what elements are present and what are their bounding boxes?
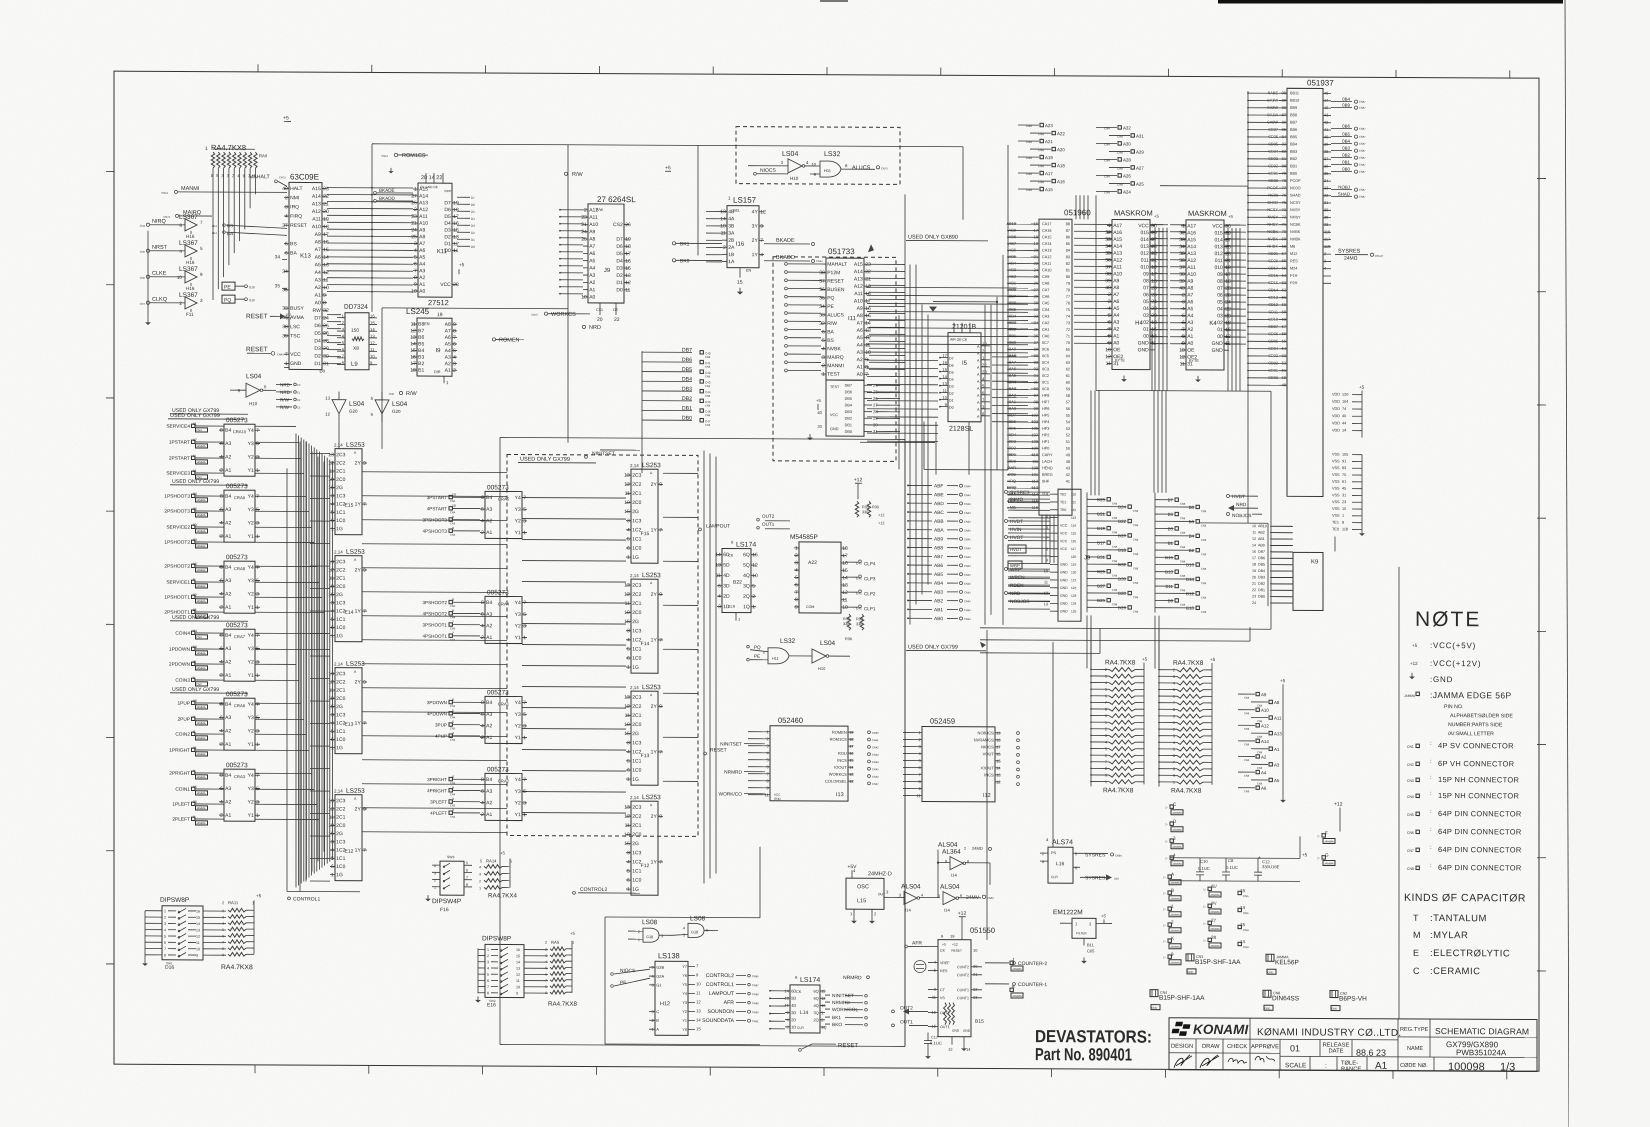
svg-text:A2: A2 [419, 275, 425, 281]
svg-text:L14: L14 [800, 1010, 809, 1016]
svg-text:CN8: CN8 [705, 384, 711, 388]
svg-text:A0: A0 [589, 294, 595, 300]
svg-text:RANCE: RANCE [1341, 1067, 1361, 1073]
svg-text:40: 40 [1105, 285, 1111, 291]
svg-text:NIRQ: NIRQ [152, 219, 166, 225]
svg-text:CN88: CN88 [752, 992, 759, 996]
svg-text:LS04: LS04 [349, 401, 365, 408]
svg-text:1: 1 [1182, 223, 1185, 229]
svg-text:IOOUT: IOOUT [981, 765, 994, 770]
svg-text:65: 65 [1066, 348, 1070, 352]
svg-text:A1: A1 [589, 287, 595, 293]
svg-text:10: 10 [1252, 524, 1256, 528]
svg-text:RESET: RESET [246, 346, 268, 353]
svg-text:8A6: 8A6 [1009, 366, 1016, 371]
svg-text:VCC: VCC [1060, 547, 1068, 551]
svg-text:CN8: CN8 [1244, 727, 1250, 731]
node R/W ls245 [399, 391, 402, 394]
svg-text:ALPHABET:SØLDER SIDE: ALPHABET:SØLDER SIDE [1450, 713, 1513, 719]
svg-text:J9: J9 [1084, 555, 1091, 561]
svg-text:A6: A6 [1261, 786, 1267, 791]
svg-text:BB10: BB10 [1290, 99, 1299, 103]
svg-text:A6: A6 [445, 335, 451, 341]
svg-text:10: 10 [328, 584, 334, 590]
svg-text:ROM1CS: ROM1CS [830, 737, 847, 742]
wire gx890 arrow [868, 185, 898, 252]
svg-text:54: 54 [1066, 420, 1070, 424]
svg-text:5: 5 [683, 933, 685, 937]
svg-text:2C2: 2C2 [336, 679, 345, 685]
svg-text:VREF: VREF [940, 961, 950, 965]
svg-text:8: 8 [323, 300, 326, 306]
svg-text:OUT: OUT [878, 892, 885, 896]
svg-text:CRA10: CRA10 [233, 429, 247, 434]
svg-text:CN90: CN90 [752, 1010, 759, 1014]
svg-text:9: 9 [795, 604, 798, 610]
svg-text:VDD: VDD [1332, 414, 1340, 418]
svg-text:11: 11 [625, 713, 630, 719]
svg-text:DB4: DB4 [845, 403, 852, 407]
svg-text:T: T [1413, 913, 1419, 923]
svg-text:GND: GND [290, 361, 301, 367]
svg-text:+5: +5 [1412, 643, 1418, 648]
svg-text:2,14: 2,14 [334, 662, 343, 667]
svg-text:A11: A11 [589, 215, 598, 221]
svg-text:D2: D2 [444, 234, 451, 240]
svg-text:AB2: AB2 [1258, 531, 1265, 535]
svg-text:AB0: AB0 [934, 616, 943, 622]
svg-text:H10: H10 [818, 666, 826, 671]
svg-text:Y1: Y1 [248, 673, 254, 679]
svg-text:2: 2 [1173, 668, 1175, 672]
svg-text:11: 11 [625, 823, 630, 829]
svg-text:23: 23 [1252, 595, 1256, 599]
svg-text:2: 2 [220, 813, 223, 819]
svg-text:CA2: CA2 [1042, 321, 1049, 325]
svg-text:CA7: CA7 [1042, 288, 1049, 292]
svg-text:2D: 2D [791, 1017, 796, 1022]
svg-text:H10: H10 [249, 401, 258, 406]
svg-text:8: 8 [452, 598, 454, 602]
svg-text:0B3: 0B3 [1342, 146, 1350, 151]
svg-text:49: 49 [1066, 453, 1070, 457]
svg-text:84: 84 [1066, 249, 1070, 253]
svg-text:1C3: 1C3 [632, 850, 641, 856]
svg-text:1Y: 1Y [651, 749, 658, 755]
svg-text:3PRIGHT: 3PRIGHT [427, 777, 447, 782]
svg-text:08: 08 [1143, 278, 1149, 284]
svg-text:9: 9 [659, 592, 662, 598]
svg-text:CN84: CN84 [987, 896, 994, 900]
svg-text:10: 10 [624, 610, 630, 616]
svg-text:GND: GND [1060, 594, 1068, 598]
svg-text:011: 011 [1141, 258, 1149, 264]
svg-text:A2: A2 [225, 799, 231, 805]
svg-text:PWB351024A: PWB351024A [1456, 1048, 1507, 1057]
svg-text:D6: D6 [314, 323, 321, 329]
svg-text:LS157: LS157 [733, 196, 757, 205]
svg-text:AL364: AL364 [942, 849, 961, 856]
svg-text:A8: A8 [857, 313, 863, 319]
svg-text:24: 24 [323, 315, 329, 321]
svg-text:3: 3 [256, 455, 259, 461]
svg-text:NRMRD: NRMRD [832, 1000, 850, 1006]
svg-text:VCC: VCC [440, 282, 451, 288]
svg-text:A3: A3 [225, 786, 231, 792]
svg-text:17: 17 [323, 232, 329, 238]
svg-text:1: 1 [523, 735, 526, 741]
svg-text:2: 2 [222, 901, 224, 905]
svg-text:A17: A17 [1187, 223, 1196, 229]
svg-text:2: 2 [414, 207, 417, 213]
svg-text:CN8: CN8 [1133, 581, 1139, 585]
svg-text:COM: COM [806, 605, 814, 609]
svg-text:78: 78 [1282, 178, 1286, 183]
svg-text:E16: E16 [487, 1002, 496, 1008]
svg-text:21: 21 [865, 277, 871, 283]
svg-text:5: 5 [523, 612, 526, 618]
svg-text:+12: +12 [952, 943, 958, 947]
svg-text:24MΩ: 24MΩ [972, 846, 983, 851]
svg-text:24: 24 [1252, 601, 1256, 605]
svg-text:77: 77 [1066, 295, 1070, 299]
svg-text:PE: PE [224, 285, 231, 291]
wire maskrom stubs [1096, 223, 1112, 225]
svg-text:CN43: CN43 [964, 590, 971, 594]
svg-text:NINITSET: NINITSET [720, 742, 742, 748]
svg-text:4: 4 [453, 355, 456, 361]
svg-text:16: 16 [323, 239, 329, 245]
svg-text:GND: GND [774, 797, 781, 801]
wire mesh col2 [522, 497, 626, 500]
svg-text:13: 13 [323, 262, 329, 268]
svg-text:LS253: LS253 [346, 549, 365, 556]
svg-text:122: 122 [1071, 586, 1077, 590]
svg-text:Y3: Y3 [248, 715, 254, 721]
svg-text:VDD: VDD [1332, 429, 1340, 433]
svg-text:1C0: 1C0 [632, 656, 641, 662]
svg-text:CN7: CN7 [1407, 849, 1414, 853]
svg-text:02: 02 [1143, 320, 1149, 326]
svg-text:A1: A1 [419, 282, 425, 288]
svg-text:LS367: LS367 [179, 240, 198, 247]
svg-text:15: 15 [737, 280, 743, 286]
svg-text:BB3: BB3 [1290, 150, 1297, 154]
svg-text:Y6: Y6 [682, 974, 687, 978]
svg-text:BB2: BB2 [1290, 157, 1297, 161]
svg-text:40: 40 [817, 410, 822, 415]
svg-text:CN2: CN2 [1407, 763, 1414, 767]
svg-text:15: 15 [328, 485, 334, 491]
svg-text:Y5: Y5 [682, 983, 687, 987]
svg-text:15: 15 [624, 509, 630, 515]
svg-text:36: 36 [1324, 163, 1328, 168]
svg-text:AB2: AB2 [934, 598, 943, 604]
svg-text:2C0: 2C0 [632, 610, 641, 616]
svg-text:A0: A0 [315, 300, 321, 306]
svg-text:3: 3 [452, 797, 454, 801]
svg-text:CLR: CLR [1051, 875, 1058, 879]
svg-text:83: 83 [1282, 141, 1286, 146]
svg-text:A12: A12 [589, 207, 598, 213]
svg-text:4: 4 [414, 248, 417, 254]
svg-text:CN47: CN47 [872, 782, 879, 786]
svg-text:64P DIN CONNECTOR: 64P DIN CONNECTOR [1438, 863, 1522, 872]
svg-text:21: 21 [323, 201, 329, 207]
svg-text:119: 119 [1324, 244, 1330, 249]
svg-text:JAMMA: JAMMA [1172, 845, 1182, 849]
svg-text:09: 09 [1143, 272, 1149, 278]
svg-text:85: 85 [1066, 242, 1070, 246]
svg-text:12: 12 [996, 779, 1001, 784]
svg-text:P1H: P1H [1290, 274, 1298, 278]
svg-text:124: 124 [1071, 602, 1077, 606]
svg-text:0B2: 0B2 [1342, 153, 1350, 158]
svg-text:08: 08 [1217, 279, 1223, 285]
svg-text:CN8: CN8 [1201, 552, 1207, 556]
svg-text:20: 20 [1252, 575, 1256, 579]
svg-text:102: 102 [1032, 412, 1039, 417]
svg-text:005273: 005273 [487, 484, 509, 491]
svg-text:B15P-SHF-1AA: B15P-SHF-1AA [1195, 959, 1241, 966]
svg-text:B4: B4 [418, 348, 424, 354]
svg-text:55: 55 [1282, 338, 1286, 343]
svg-text:15: 15 [453, 228, 459, 234]
svg-text:3: 3 [1173, 734, 1175, 738]
svg-text:D6: D6 [471, 203, 475, 207]
svg-text:DB2: DB2 [1258, 582, 1265, 586]
svg-text:16: 16 [196, 909, 200, 913]
svg-text:CUNT2: CUNT2 [957, 973, 969, 977]
svg-text:6: 6 [220, 507, 223, 513]
svg-text:26: 26 [1034, 280, 1038, 285]
svg-text:15: 15 [1240, 888, 1246, 893]
svg-text:051937: 051937 [1307, 78, 1334, 87]
svg-text:2C2: 2C2 [632, 592, 641, 598]
svg-text:A6: A6 [589, 251, 595, 257]
svg-text:2: 2 [479, 879, 481, 883]
svg-text:4: 4 [718, 594, 721, 600]
svg-text:25: 25 [1151, 244, 1157, 250]
svg-text:1C0: 1C0 [632, 878, 641, 884]
svg-text:29: 29 [323, 346, 329, 352]
svg-text:CRA7: CRA7 [234, 634, 246, 639]
svg-text:7: 7 [659, 528, 662, 534]
svg-text:MG: MG [1010, 505, 1016, 510]
svg-text:DB4: DB4 [682, 377, 692, 383]
svg-text:A9: A9 [315, 232, 321, 238]
svg-text:CN42: CN42 [872, 745, 879, 749]
svg-text:A10: A10 [419, 221, 428, 227]
svg-text:A8: A8 [315, 239, 321, 245]
svg-text:12: 12 [328, 460, 334, 466]
svg-text:CN4: CN4 [450, 715, 456, 719]
svg-text:KØNAMI INDUSTRY CØ..LTD.: KØNAMI INDUSTRY CØ..LTD. [1257, 1027, 1401, 1039]
svg-text:NHSY: NHSY [1290, 215, 1301, 219]
svg-text:16: 16 [410, 355, 416, 361]
svg-text:LS253: LS253 [346, 788, 365, 795]
svg-text:32: 32 [323, 308, 329, 314]
svg-text:18: 18 [410, 368, 416, 374]
svg-text:100: 100 [1032, 465, 1039, 470]
svg-text:8: 8 [487, 991, 489, 995]
note column divider [1398, 567, 1400, 1019]
svg-text:DATE: DATE [1328, 1049, 1343, 1055]
svg-text:SOUNDON: SOUNDON [707, 1009, 734, 1015]
svg-text:Y2: Y2 [248, 455, 254, 461]
svg-text:2Q: 2Q [813, 1017, 818, 1022]
svg-text:2: 2 [1108, 292, 1111, 298]
svg-text:4: 4 [1173, 681, 1175, 685]
wire mesh inputs to muxes [255, 425, 296, 427]
svg-text:32: 32 [1034, 307, 1038, 312]
svg-text:5: 5 [1173, 688, 1175, 692]
svg-text:D13: D13 [286, 316, 292, 320]
svg-text:B8: B8 [418, 322, 424, 328]
svg-text:DD7324: DD7324 [344, 304, 368, 311]
svg-text:I9: I9 [435, 348, 441, 354]
svg-text:10: 10 [581, 294, 587, 300]
svg-text:52: 52 [1282, 360, 1286, 365]
svg-text:8A9: 8A9 [1009, 346, 1016, 351]
svg-text:8: 8 [481, 600, 484, 606]
svg-text:2: 2 [220, 742, 223, 748]
svg-text:+12: +12 [878, 521, 884, 525]
svg-text:RA4.7KX8: RA4.7KX8 [1105, 659, 1136, 666]
svg-text:12: 12 [1252, 537, 1256, 541]
svg-text:D5: D5 [616, 251, 623, 257]
svg-text:12: 12 [328, 679, 334, 685]
svg-text:16: 16 [370, 314, 375, 319]
svg-text:A5: A5 [419, 255, 425, 261]
svg-text:9: 9 [196, 954, 198, 958]
svg-text:CN87: CN87 [1359, 156, 1366, 160]
svg-text:4: 4 [1105, 681, 1107, 685]
svg-text:BKADD: BKADD [776, 255, 795, 261]
svg-text:Y4: Y4 [515, 777, 521, 783]
svg-text:CN73: CN73 [163, 215, 170, 219]
svg-text:1: 1 [256, 605, 259, 611]
svg-text:CONTROL1: CONTROL1 [293, 896, 320, 902]
svg-text:2Y: 2Y [651, 482, 658, 488]
svg-text:A8: A8 [1274, 700, 1280, 705]
svg-text:12: 12 [196, 935, 200, 939]
wire ls157 gnd [739, 278, 741, 288]
svg-text:USED ONLY GX890: USED ONLY GX890 [908, 234, 958, 240]
svg-text:A9: A9 [1261, 692, 1267, 697]
svg-text:1B: 1B [728, 252, 735, 258]
svg-text:9: 9 [1342, 521, 1344, 525]
svg-text:D1: D1 [314, 361, 321, 367]
svg-text:DB2: DB2 [845, 417, 852, 421]
svg-text:MANMI: MANMI [181, 186, 200, 192]
svg-text:CN3: CN3 [450, 704, 456, 708]
svg-text:/8/: /8/ [193, 507, 197, 511]
svg-text:CN8: CN8 [1201, 509, 1207, 513]
inverter pair U-G20 LS04 [332, 400, 346, 414]
svg-text:9: 9 [414, 282, 417, 288]
svg-text:07: 07 [1143, 285, 1149, 291]
svg-text:Y4: Y4 [248, 494, 254, 500]
svg-text:VDD: VDD [1332, 393, 1340, 397]
svg-text:1Y: 1Y [651, 527, 658, 533]
svg-text:75: 75 [1342, 473, 1346, 477]
svg-text:BYTE: BYTE [1189, 359, 1199, 363]
svg-text:11: 11 [193, 422, 197, 426]
svg-text:15P NH CONNECTOR: 15P NH CONNECTOR [1438, 791, 1519, 800]
svg-text:15: 15 [942, 367, 947, 372]
svg-text:B15P-SHF-1AA: B15P-SHF-1AA [1159, 995, 1205, 1002]
svg-text:106: 106 [1032, 426, 1039, 431]
svg-text:AB1: AB1 [1258, 537, 1265, 541]
svg-text:ALS04: ALS04 [901, 883, 921, 890]
svg-text:MAHALT: MAHALT [827, 262, 847, 268]
svg-text:014: 014 [1214, 237, 1223, 243]
svg-text:A8: A8 [1187, 286, 1193, 292]
svg-text:USED ONLY GX799: USED ONLY GX799 [908, 644, 958, 650]
svg-text:CARY: CARY [1042, 453, 1053, 457]
svg-text:051960: 051960 [1064, 208, 1091, 217]
svg-text:CN12: CN12 [381, 154, 388, 158]
wire density bundles [909, 264, 911, 624]
svg-text:PE: PE [754, 654, 760, 659]
svg-text:C44: C44 [705, 390, 711, 394]
svg-text:21: 21 [1252, 582, 1256, 586]
svg-text:1C3: 1C3 [336, 712, 345, 718]
border frame [114, 71, 1539, 1071]
svg-text:21: 21 [1151, 258, 1157, 264]
svg-text:A0: A0 [1187, 341, 1193, 347]
svg-text:+5V: +5V [847, 864, 857, 870]
svg-text:SERVICE3: SERVICE3 [166, 471, 190, 477]
svg-text:A1: A1 [486, 812, 492, 818]
svg-text:1: 1 [256, 534, 259, 540]
svg-text:011: 011 [1215, 258, 1223, 264]
svg-text:VDD: VDD [1332, 400, 1340, 404]
svg-text:1G: 1G [632, 777, 639, 783]
svg-text:A6: A6 [857, 328, 863, 334]
svg-text:6: 6 [627, 878, 630, 884]
svg-text:8: 8 [452, 609, 454, 613]
svg-text:1Y: 1Y [355, 721, 362, 727]
svg-text:2,14: 2,14 [334, 789, 343, 794]
svg-text:39: 39 [1324, 142, 1328, 147]
svg-text:A3: A3 [315, 277, 321, 283]
svg-text:3: 3 [1105, 675, 1107, 679]
svg-text:0D7: 0D7 [1009, 412, 1016, 417]
svg-text:CLP3: CLP3 [864, 576, 876, 581]
svg-text:CLR: CLR [728, 605, 736, 609]
svg-text:A1: A1 [1113, 333, 1119, 339]
svg-text:48: 48 [1324, 90, 1328, 95]
svg-text:P12M: P12M [827, 270, 840, 276]
svg-text:ROM1CS: ROM1CS [402, 153, 426, 159]
svg-text:0B6: 0B6 [1009, 300, 1016, 305]
svg-text:13: 13 [328, 452, 334, 458]
svg-text:07: 07 [1217, 286, 1223, 292]
svg-text:Y4: Y4 [515, 700, 521, 706]
svg-text:WORK/COL: WORK/COL [832, 1007, 858, 1013]
svg-text:11: 11 [865, 343, 870, 349]
node ROM1CS [394, 153, 397, 156]
svg-text:4: 4 [822, 346, 825, 352]
svg-text:4: 4 [683, 926, 685, 930]
svg-text:AB9: AB9 [934, 536, 943, 542]
svg-text:5: 5 [222, 928, 224, 932]
svg-text:Y1: Y1 [515, 530, 521, 536]
svg-text:6: 6 [960, 894, 962, 898]
svg-text:15: 15 [865, 313, 871, 319]
